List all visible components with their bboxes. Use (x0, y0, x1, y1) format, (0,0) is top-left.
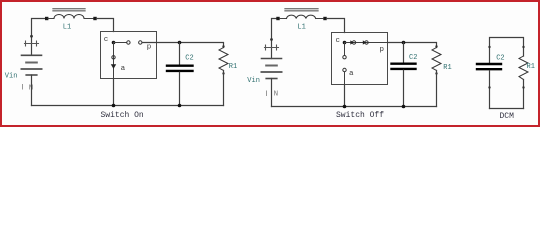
svg-text:C2: C2 (409, 54, 417, 62)
capacitor C2 (392, 43, 416, 107)
wire inductor to box corner (97, 19, 114, 32)
junction (343, 105, 347, 109)
svg-text:c: c (104, 36, 109, 44)
svg-text:L1: L1 (297, 23, 305, 31)
switch open contact to P (114, 41, 143, 44)
svg-text:N: N (274, 91, 279, 99)
wire switch a to bottom rail (113, 79, 115, 106)
resistor R1 (219, 45, 228, 105)
wire P to resistor (top right rail) (388, 43, 437, 48)
switch closed contact to P (345, 40, 388, 44)
switch U1 box (101, 32, 157, 79)
inductor L1 (276, 9, 326, 20)
svg-text:c: c (336, 37, 341, 45)
junction (112, 104, 116, 108)
battery Vin (22, 35, 42, 75)
battery minus marking (23, 84, 34, 92)
svg-text:p: p (147, 43, 152, 51)
wire left vertical + top rail to inductor (32, 19, 48, 56)
capacitor C2 (167, 43, 193, 106)
bottom rail circuit 2 (272, 106, 437, 108)
bottom rail (490, 108, 524, 110)
wire switch a to bottom rail (344, 85, 346, 107)
svg-text:R1: R1 (229, 63, 237, 71)
svg-text:DCM: DCM (500, 112, 515, 121)
inductor L1 (45, 9, 97, 20)
switch U1 box (332, 33, 388, 85)
svg-text:p: p (380, 46, 385, 54)
svg-text:C2: C2 (185, 54, 193, 62)
svg-text:R1: R1 (527, 63, 535, 71)
junction (178, 104, 182, 108)
svg-text:Vin: Vin (5, 73, 18, 81)
svg-text:C2: C2 (496, 54, 504, 62)
top rail (490, 38, 524, 64)
junction (178, 41, 182, 45)
switch closed contact to a (111, 43, 116, 79)
resistor R1 (519, 46, 528, 109)
bottom rail circuit 1 (32, 105, 224, 107)
svg-text:R1: R1 (443, 64, 451, 72)
wire battery to bottom rail (31, 75, 33, 106)
svg-text:Switch Off: Switch Off (336, 111, 384, 120)
junction (402, 41, 406, 45)
junction (402, 105, 406, 109)
svg-text:Vin: Vin (247, 77, 260, 85)
wire left vertical + top rail to inductor (272, 19, 279, 59)
svg-text:a: a (121, 65, 126, 73)
capacitor C2 (477, 46, 501, 109)
battery minus marking (267, 91, 279, 99)
wire inductor to box corner (327, 19, 345, 33)
wire P to resistor (top right rail) (142, 43, 224, 48)
switch open contact to a (343, 43, 346, 85)
switch common node dot (112, 41, 116, 45)
svg-text:Switch On: Switch On (101, 111, 144, 120)
switch common node dot (343, 41, 347, 45)
resistor R1 (432, 45, 441, 106)
svg-text:L1: L1 (63, 23, 71, 31)
battery Vin (262, 38, 282, 78)
wire battery to bottom rail (271, 79, 273, 107)
svg-text:a: a (349, 70, 354, 78)
